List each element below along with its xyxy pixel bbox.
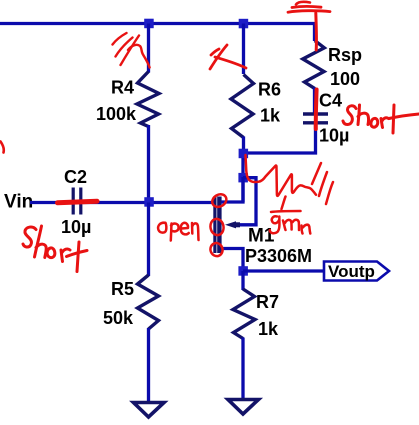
node input junction bbox=[144, 197, 154, 207]
node drain junction upper bbox=[239, 149, 249, 159]
wire C4 bottom to drain node bbox=[243, 123, 316, 153]
wire top bus bbox=[0, 24, 315, 42]
annotation 1/gm fraction bbox=[270, 197, 311, 234]
capacitor C2 bbox=[73, 188, 81, 215]
wire output to flag bbox=[243, 269, 324, 272]
resistor R7 bbox=[241, 271, 244, 290]
resistor R4 bbox=[147, 24, 150, 73]
svg-text:1k: 1k bbox=[260, 106, 281, 126]
svg-text:M1: M1 bbox=[248, 226, 275, 247]
svg-text:R7: R7 bbox=[256, 292, 279, 312]
annotation gm squiggle at drain bbox=[246, 155, 317, 196]
capacitor C4 bbox=[303, 114, 328, 123]
annotation tick left edge bbox=[1, 142, 4, 153]
svg-text:P3306M: P3306M bbox=[245, 246, 312, 266]
resistor R5 bbox=[147, 203, 150, 277]
annotation ac-ground scribble top right bbox=[296, 2, 310, 5]
svg-text:Vin: Vin bbox=[4, 192, 33, 213]
node Voutp flag bbox=[324, 262, 389, 281]
resistor R6 bbox=[242, 24, 245, 75]
svg-text:100k: 100k bbox=[96, 104, 137, 124]
annotation hash marks above R4 bbox=[113, 33, 127, 45]
svg-text:C2: C2 bbox=[64, 167, 87, 187]
svg-text:R4: R4 bbox=[111, 78, 134, 98]
transistor M1 drain stub bbox=[221, 177, 243, 202]
annotation short across C4 (vertical stroke along lead) bbox=[314, 90, 319, 130]
svg-text:R6: R6 bbox=[258, 80, 281, 100]
svg-text:10µ: 10µ bbox=[319, 126, 349, 146]
annotation Short (right) bbox=[343, 105, 419, 133]
svg-text:50k: 50k bbox=[103, 308, 134, 328]
annotation open bbox=[158, 223, 198, 241]
transistor M1 bulk arrow wire bbox=[236, 178, 256, 225]
transistor M1 gate bar bbox=[213, 197, 216, 254]
node drain junction lower bbox=[238, 173, 248, 183]
wire C2 to gate node bbox=[83, 201, 215, 204]
annotation Short (bottom left) bbox=[23, 226, 87, 272]
node VDD junction at R4 top bbox=[144, 19, 154, 29]
annotation circle on M1 bottom contact bbox=[209, 241, 225, 258]
wire R6 bottom to M1 bbox=[241, 153, 244, 202]
node output junction bbox=[238, 266, 248, 276]
ground at R5 bbox=[134, 403, 165, 418]
svg-text:1k: 1k bbox=[258, 319, 279, 339]
svg-text:Rsp: Rsp bbox=[328, 45, 362, 65]
transistor M1 bulk arrow head bbox=[225, 221, 236, 228]
ground at R7 bbox=[228, 400, 259, 415]
svg-text:Voutp: Voutp bbox=[328, 262, 375, 281]
svg-text:R5: R5 bbox=[111, 279, 134, 299]
svg-text:C4: C4 bbox=[319, 91, 342, 111]
svg-text:100: 100 bbox=[330, 69, 360, 89]
transistor M1 source stub bbox=[221, 249, 243, 272]
node junction at R6 top bbox=[239, 19, 249, 29]
annotation circle on M1 middle contact bbox=[209, 218, 225, 236]
annotation circle on M1 top contact bbox=[210, 192, 229, 210]
annotation short across C2 bbox=[58, 201, 98, 203]
annotation x-strike at R6 bbox=[210, 45, 227, 69]
transistor M1 channel bar bbox=[217, 197, 221, 254]
svg-text:10µ: 10µ bbox=[61, 217, 91, 237]
wire Vin to C2 bbox=[30, 201, 71, 204]
annotation hash marks at gm bbox=[312, 163, 321, 184]
resistor Rsp bbox=[303, 41, 325, 89]
